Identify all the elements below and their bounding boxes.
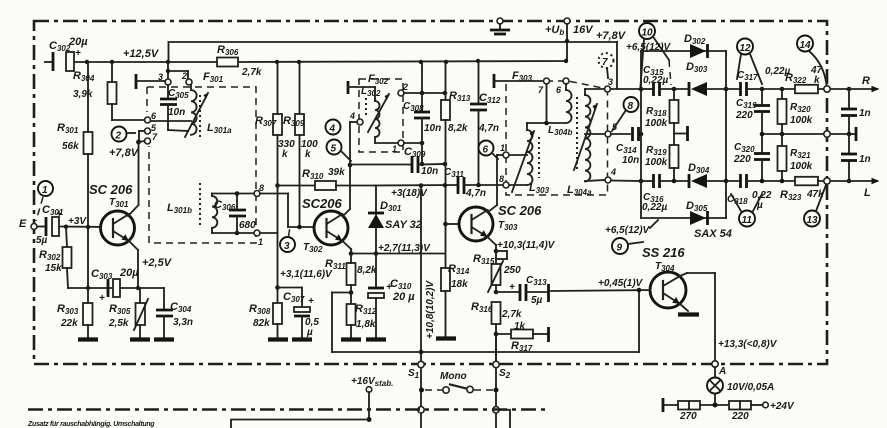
svg-text:SC206: SC206 bbox=[302, 196, 343, 211]
capacitor C309 10n bbox=[350, 146, 447, 177]
resistor R307 330k bbox=[255, 62, 295, 186]
circled node 5 bbox=[327, 140, 352, 162]
node pin 2 of F302 bbox=[398, 62, 447, 96]
node terminal on border (L line) bbox=[824, 178, 830, 184]
svg-text:7: 7 bbox=[602, 57, 608, 68]
svg-text:+7,8V: +7,8V bbox=[596, 30, 627, 42]
svg-text:5µ: 5µ bbox=[531, 295, 543, 306]
capacitor C308 10n bbox=[403, 93, 441, 166]
circled node 10 with callout bbox=[639, 23, 671, 86]
circled node 11 with callout bbox=[731, 194, 762, 227]
svg-text:39k: 39k bbox=[328, 167, 345, 178]
filter F303 dashed box bbox=[506, 70, 608, 195]
diode D305 SAX54 bbox=[641, 200, 732, 240]
circled node 14 with callout bbox=[797, 36, 827, 86]
wire S2 lower jog bbox=[499, 410, 510, 428]
resistor R315 250 trimmer bbox=[473, 251, 521, 294]
svg-text:SC 206: SC 206 bbox=[498, 203, 542, 218]
svg-text:220: 220 bbox=[733, 154, 751, 165]
diode D304 (L line) bbox=[688, 162, 710, 188]
svg-text:0,22µ: 0,22µ bbox=[642, 202, 667, 213]
capacitor C316 0,22µ (L line) bbox=[641, 174, 740, 213]
wire T303 base line bbox=[443, 164, 459, 268]
svg-text:k: k bbox=[305, 149, 311, 160]
inductor L304a (variable) bbox=[567, 89, 605, 197]
wire T302 collector bbox=[343, 165, 350, 216]
wire diode matrix left rail bbox=[639, 51, 644, 218]
svg-text:+12,5V: +12,5V bbox=[123, 48, 160, 60]
label +3(18)V bbox=[391, 188, 428, 199]
svg-text:k: k bbox=[282, 149, 288, 160]
resistor R320 100k bbox=[778, 89, 813, 134]
wire NF line (R311/R312 junction to T304 base riser) bbox=[332, 290, 639, 352]
svg-text:R: R bbox=[862, 75, 870, 87]
svg-text:220: 220 bbox=[731, 411, 749, 422]
svg-text:+: + bbox=[509, 282, 515, 293]
terminal bar (mid line right) bbox=[849, 127, 856, 141]
circled node 4 bbox=[326, 120, 341, 135]
circled node 8 bbox=[612, 97, 639, 131]
svg-text:20µ: 20µ bbox=[119, 267, 139, 279]
ground (C307) bbox=[292, 337, 312, 341]
capacitor C305 10n bbox=[160, 85, 189, 131]
node pin3 pin2 of F301 bbox=[158, 62, 192, 85]
svg-text:+: + bbox=[75, 48, 81, 59]
ground (C310) bbox=[366, 337, 386, 341]
inductor L302 (variable) bbox=[361, 86, 398, 143]
svg-text:9: 9 bbox=[617, 243, 623, 254]
capacitor 1n (upper) bbox=[841, 89, 871, 136]
svg-text:SAX 54: SAX 54 bbox=[694, 228, 732, 240]
label +7,8V bbox=[109, 147, 140, 159]
ground (R308) bbox=[268, 337, 288, 341]
svg-text:5µ: 5µ bbox=[36, 235, 48, 246]
circled node 6 bbox=[479, 141, 499, 160]
svg-text:12: 12 bbox=[740, 43, 752, 54]
node pins 6 5 7 of F301 bbox=[112, 111, 158, 144]
svg-text:1k: 1k bbox=[514, 321, 526, 332]
label +3,1(11,6)V bbox=[280, 269, 333, 280]
resistor R309 100k bbox=[283, 62, 318, 227]
node +16Vstab terminal bbox=[351, 376, 393, 422]
wire T304 base bbox=[551, 288, 650, 293]
resistor R304 3,9k bbox=[73, 62, 117, 120]
svg-text:4: 4 bbox=[610, 167, 616, 177]
resistor R301 56k bbox=[57, 62, 93, 287]
svg-text:+3(18)V: +3(18)V bbox=[391, 188, 428, 199]
capacitor C318 0,22µ (L line) bbox=[727, 174, 795, 211]
svg-text:22k: 22k bbox=[60, 318, 78, 329]
capacitor C303 20µ bbox=[91, 267, 139, 304]
svg-text:2,7k: 2,7k bbox=[241, 67, 262, 78]
capacitor C302 20µ bbox=[49, 36, 88, 71]
svg-text:+: + bbox=[99, 293, 105, 304]
node pin 6 of F303 bbox=[556, 78, 569, 95]
inductor L301a (variable) bbox=[151, 85, 233, 140]
wire addendum feed line bbox=[231, 420, 369, 428]
svg-text:1: 1 bbox=[500, 143, 505, 153]
capacitor C315 0,22µ (R line) bbox=[641, 65, 740, 96]
svg-text:4,7n: 4,7n bbox=[478, 123, 499, 134]
svg-text:16V: 16V bbox=[573, 24, 594, 36]
svg-text:20µ: 20µ bbox=[68, 36, 88, 48]
inductor L303 (variable) bbox=[509, 123, 550, 195]
wire T302 emitter node +2,7V bbox=[343, 241, 446, 256]
svg-text:1n: 1n bbox=[859, 108, 871, 119]
capacitor C306 680 bbox=[212, 191, 257, 235]
node pin 1 of F302 bbox=[392, 140, 424, 154]
label +3V bbox=[64, 216, 88, 229]
svg-text:+6,5(12)V: +6,5(12)V bbox=[626, 42, 672, 53]
svg-text:1: 1 bbox=[42, 185, 48, 196]
svg-text:14: 14 bbox=[800, 40, 812, 51]
svg-text:15k: 15k bbox=[45, 263, 62, 274]
ground (R312) bbox=[341, 337, 361, 341]
ground (R305) bbox=[130, 337, 150, 341]
capacitor C313 5µ bbox=[496, 275, 549, 306]
label +6,5(12)V (bottom) bbox=[605, 225, 651, 236]
terminal bar (24V feed) bbox=[663, 398, 678, 412]
svg-text:k: k bbox=[814, 75, 820, 86]
wire R output arrow bbox=[847, 75, 880, 92]
capacitor C311 4,7n bbox=[375, 167, 503, 199]
wire pin8 jog to T302 base bbox=[288, 194, 314, 230]
resistor R305 2,5k trimmer bbox=[108, 288, 148, 337]
svg-text:8,2k: 8,2k bbox=[357, 265, 377, 276]
svg-text:+7,8V: +7,8V bbox=[109, 147, 140, 159]
inductor L304b bbox=[527, 90, 572, 137]
capacitor C314 10n bbox=[616, 127, 643, 166]
svg-text:Zusatz für rauschabhängig. Ums: Zusatz für rauschabhängig. Umschaltung bbox=[27, 421, 155, 428]
capacitor C319 220 bbox=[735, 89, 770, 134]
svg-text:+13,3(<0,8)V: +13,3(<0,8)V bbox=[718, 339, 778, 350]
circled node 9 with callout bbox=[612, 220, 658, 254]
svg-text:100k: 100k bbox=[645, 157, 668, 168]
node pin 8 of F303 bbox=[499, 174, 509, 188]
transistor T304 SS216 bbox=[642, 245, 686, 308]
svg-text:1: 1 bbox=[258, 237, 263, 247]
resistor 270 bbox=[678, 401, 729, 422]
svg-text:8: 8 bbox=[628, 101, 634, 112]
second dash-dot line (addendum separator) bbox=[28, 408, 548, 411]
svg-text:8: 8 bbox=[259, 183, 264, 193]
wire +10,8(10,2)V line to S1 bbox=[419, 183, 436, 428]
svg-text:A: A bbox=[718, 366, 726, 377]
wire emitter bottom line bbox=[68, 286, 164, 290]
svg-text:2,7k: 2,7k bbox=[501, 309, 522, 320]
svg-text:SC 206: SC 206 bbox=[89, 182, 133, 197]
capacitor C317 0,22µ (R line) bbox=[737, 66, 795, 96]
label +7,8V (rail) bbox=[596, 30, 627, 42]
svg-text:10n: 10n bbox=[622, 155, 639, 166]
svg-text:L: L bbox=[864, 187, 871, 199]
svg-text:2: 2 bbox=[402, 82, 408, 92]
resistor R319 100k bbox=[645, 145, 679, 181]
svg-text:4: 4 bbox=[349, 111, 355, 121]
svg-text:10n: 10n bbox=[168, 107, 185, 118]
svg-text:2,5k: 2,5k bbox=[108, 318, 129, 329]
svg-text:1: 1 bbox=[392, 144, 397, 154]
svg-text:270: 270 bbox=[679, 411, 697, 422]
label +10,3(11,4)V bbox=[497, 240, 556, 251]
svg-text:+0,45(1)V: +0,45(1)V bbox=[598, 278, 644, 289]
svg-text:0,22µ: 0,22µ bbox=[643, 75, 668, 86]
ground (C304) bbox=[154, 337, 174, 341]
svg-text:680: 680 bbox=[239, 220, 256, 231]
node +Ub 16V terminal on border bbox=[545, 18, 594, 37]
resistor R323 47k (L line) bbox=[780, 177, 848, 202]
resistor R310 39k bbox=[278, 167, 376, 190]
svg-text:18k: 18k bbox=[451, 279, 468, 290]
capacitor 1n (lower) bbox=[841, 134, 871, 181]
svg-text:10: 10 bbox=[642, 28, 654, 39]
lamp 10V/0,05A bbox=[707, 367, 774, 405]
svg-text:+2,5V: +2,5V bbox=[142, 257, 173, 269]
ground (R314) bbox=[436, 336, 456, 340]
svg-text:+3V: +3V bbox=[68, 216, 87, 227]
wire T303 collector to pin1 F303 bbox=[488, 155, 503, 212]
label +12,5V bbox=[123, 48, 160, 60]
label +6,5(12)V (top) bbox=[626, 42, 672, 53]
svg-text:8: 8 bbox=[499, 174, 504, 184]
label +13,3(<0,8)V bbox=[718, 339, 778, 350]
svg-text:20 µ: 20 µ bbox=[392, 291, 415, 303]
filter F302 dashed box bbox=[359, 73, 403, 152]
node pin 8 of F301 bbox=[254, 183, 288, 197]
svg-text:µ: µ bbox=[306, 327, 313, 338]
capacitor C312 4,7n bbox=[470, 61, 501, 185]
diode D303 (R line) bbox=[686, 61, 708, 96]
terminal bar (F302) bbox=[348, 81, 375, 94]
label +2,7(11,3)V bbox=[378, 243, 431, 254]
resistor R308 82k bbox=[249, 303, 282, 337]
svg-text:2: 2 bbox=[115, 131, 122, 142]
ground (R303) bbox=[78, 337, 98, 341]
label +0,45(1)V bbox=[598, 278, 644, 289]
resistor R314 18k bbox=[441, 263, 470, 336]
resistor R303 22k bbox=[57, 288, 93, 337]
wire mid line (de-emphasis) bbox=[762, 131, 849, 137]
filter F301 dashed box bbox=[147, 71, 256, 243]
border frame dash-dot bbox=[34, 21, 827, 364]
circled node 3 bbox=[280, 227, 295, 252]
capacitor C320 220 bbox=[733, 132, 770, 181]
svg-text:+10,8(10,2)V: +10,8(10,2)V bbox=[425, 280, 436, 339]
resistor R302 15k bbox=[39, 227, 72, 288]
svg-text:4,7n: 4,7n bbox=[465, 188, 486, 199]
svg-text:100k: 100k bbox=[645, 118, 668, 129]
svg-text:10V/0,05A: 10V/0,05A bbox=[727, 382, 774, 393]
svg-text:100k: 100k bbox=[790, 161, 813, 172]
transistor T301 SC206 bbox=[89, 182, 135, 245]
svg-text:+: + bbox=[308, 296, 314, 307]
resistor R313 8,2k bbox=[441, 62, 471, 164]
node terminal on border (R line) bbox=[824, 86, 830, 92]
circled node 13 with callout bbox=[804, 185, 826, 227]
terminal bar (R318/R319 tap) bbox=[674, 126, 688, 141]
svg-text:220: 220 bbox=[735, 110, 753, 121]
circled node 1 bbox=[36, 181, 53, 221]
svg-text:4: 4 bbox=[329, 124, 336, 135]
capacitor C301 5µ bbox=[36, 204, 100, 246]
node pin 7 of F303 bbox=[538, 78, 550, 123]
svg-text:10n: 10n bbox=[424, 123, 441, 134]
wire L output arrow bbox=[847, 178, 880, 199]
svg-text:+10,3(11,4)V: +10,3(11,4)V bbox=[497, 240, 556, 251]
node pin 4 of F303 bbox=[605, 167, 641, 183]
ground symbol on top border bbox=[490, 18, 510, 34]
wire diode matrix right rail bbox=[724, 51, 729, 218]
diode D301 SAY32 bbox=[368, 186, 422, 254]
svg-text:8,2k: 8,2k bbox=[448, 123, 468, 134]
circled node 2 bbox=[112, 127, 136, 142]
terminal bar (F303 pin7) bbox=[494, 74, 543, 88]
resistor R321 100k bbox=[778, 134, 813, 181]
node pin 1 of F301 bbox=[254, 230, 278, 247]
resistor R306 2,7k (in rail) bbox=[217, 44, 262, 78]
resistor 220 bbox=[729, 401, 768, 422]
wire base divider node (+3,1V) bbox=[275, 183, 280, 303]
svg-text:E: E bbox=[19, 218, 27, 230]
node A on border bbox=[712, 361, 726, 377]
circled node 7 (dashed) bbox=[599, 53, 614, 78]
wire T301 emitter to +2,5V node bbox=[129, 241, 140, 290]
wire T304 collector bbox=[680, 273, 715, 361]
capacitor C304 3,3n bbox=[156, 288, 193, 337]
capacitor C307 0,5µ bbox=[278, 288, 320, 339]
svg-text:13: 13 bbox=[807, 215, 819, 226]
node pin 1 of F303 bbox=[500, 143, 527, 158]
wire T303 emitter bbox=[488, 237, 499, 253]
terminal bar (F301 pin3 side) bbox=[136, 74, 165, 89]
node pin 4 of F302 bbox=[348, 111, 363, 167]
svg-text:10n: 10n bbox=[421, 166, 438, 177]
switch Mono bbox=[425, 371, 493, 393]
svg-text:SS 216: SS 216 bbox=[642, 245, 685, 260]
svg-text:6: 6 bbox=[483, 145, 489, 156]
wire T301 collector bbox=[128, 142, 139, 216]
node pin 5 of F303 bbox=[585, 122, 630, 137]
node S1 bbox=[408, 361, 424, 413]
svg-text:Mono: Mono bbox=[440, 371, 467, 382]
transistor T302 SC206 bbox=[302, 196, 348, 254]
svg-text:1n: 1n bbox=[859, 154, 871, 165]
capacitor C310 20µ bbox=[368, 254, 415, 338]
label addendum text bbox=[27, 421, 155, 428]
svg-text:2: 2 bbox=[181, 71, 187, 81]
svg-text:SAY 32: SAY 32 bbox=[385, 219, 422, 231]
wire +Ub rail bbox=[169, 24, 618, 89]
svg-text:3,9k: 3,9k bbox=[73, 89, 93, 100]
svg-text:+24V: +24V bbox=[770, 401, 795, 412]
svg-text:3,3n: 3,3n bbox=[173, 317, 193, 328]
label +2,5V bbox=[142, 257, 173, 269]
svg-text:5: 5 bbox=[331, 144, 337, 155]
resistor R311 8,2k bbox=[325, 254, 377, 305]
node S2 bbox=[493, 334, 511, 428]
svg-text:100k: 100k bbox=[790, 115, 813, 126]
diode D302 bbox=[641, 33, 726, 58]
resistor R317 1k bbox=[496, 321, 549, 353]
svg-text:+2,7(11,3)V: +2,7(11,3)V bbox=[378, 243, 431, 254]
wire +12,5V rail bbox=[45, 59, 568, 64]
label +24V bbox=[770, 401, 795, 412]
svg-text:+3,1(11,6)V: +3,1(11,6)V bbox=[280, 269, 333, 280]
svg-text:82k: 82k bbox=[253, 318, 270, 329]
resistor R316 2,7k bbox=[471, 301, 522, 365]
svg-text:250: 250 bbox=[503, 265, 521, 276]
circled node 12 with callout bbox=[737, 39, 762, 85]
svg-text:1,8k: 1,8k bbox=[356, 319, 376, 330]
svg-text:11: 11 bbox=[742, 215, 753, 226]
node E input terminal bbox=[19, 218, 37, 230]
transistor T303 SC206 bbox=[459, 203, 542, 241]
wire T304 emitter to ground bbox=[678, 304, 699, 315]
inductor L301b bbox=[167, 183, 217, 233]
svg-text:+6,5(12)V: +6,5(12)V bbox=[605, 225, 651, 236]
svg-text:3: 3 bbox=[284, 241, 290, 252]
node pin 3 of F303 bbox=[585, 77, 641, 92]
svg-text:56k: 56k bbox=[62, 141, 79, 152]
resistor R322 47k (R line) bbox=[785, 65, 848, 93]
resistor R312 1,8k bbox=[347, 303, 377, 337]
resistor R318 100k bbox=[645, 89, 679, 145]
